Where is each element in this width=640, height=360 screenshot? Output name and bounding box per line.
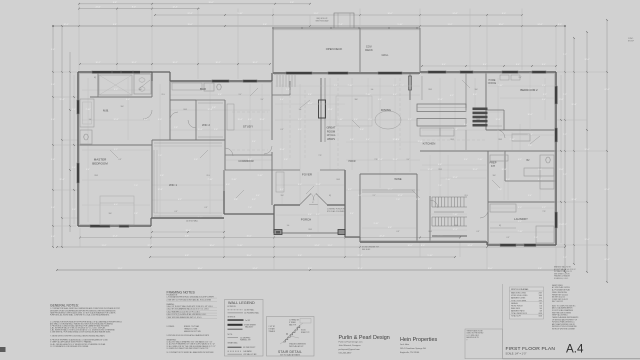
extension lines bottom bbox=[79, 228, 81, 247]
svg-text:22'-4": 22'-4" bbox=[187, 13, 192, 15]
svg-text:BID SET 04.02.22: BID SET 04.02.22 bbox=[552, 297, 565, 299]
svg-text:7'-2": 7'-2" bbox=[563, 257, 567, 259]
great room - kitchen wall bbox=[409, 73, 411, 100]
svg-text:9'-0": 9'-0" bbox=[72, 209, 76, 211]
wall wine room west bbox=[359, 174, 361, 242]
open deck outline bbox=[273, 27, 420, 29]
svg-text:2x4 INT: 2x4 INT bbox=[245, 320, 250, 322]
kitchen island 2 bbox=[417, 119, 466, 127]
windows bottom right bbox=[500, 244, 516, 247]
svg-text:7'-0": 7'-0" bbox=[134, 185, 138, 187]
svg-text:18'-0": 18'-0" bbox=[407, 245, 412, 247]
svg-text:12'-8": 12'-8" bbox=[327, 109, 332, 111]
svg-text:REV 1 06.11.22: REV 1 06.11.22 bbox=[552, 301, 563, 303]
stair west wall bbox=[429, 196, 431, 242]
deck divider wall bbox=[359, 28, 361, 73]
svg-text:2x6: 2x6 bbox=[371, 89, 374, 91]
svg-text:5'-10": 5'-10" bbox=[427, 255, 432, 257]
svg-text:9'-6": 9'-6" bbox=[214, 129, 218, 131]
wic1 shelving bbox=[154, 142, 222, 144]
svg-text:1046: 1046 bbox=[539, 295, 543, 297]
front door double swing bbox=[300, 194, 311, 205]
prep kitchen counters bbox=[490, 155, 508, 161]
svg-text:22'-4": 22'-4" bbox=[147, 245, 152, 247]
wall master closet bbox=[97, 72, 99, 97]
svg-text:LOT / SITE ONLY,: LOT / SITE ONLY, bbox=[467, 335, 480, 337]
svg-text:1414 Cheatham Springs Rd: 1414 Cheatham Springs Rd bbox=[400, 347, 426, 350]
svg-text:62'-6": 62'-6" bbox=[604, 89, 609, 91]
svg-text:3'-0": 3'-0" bbox=[239, 94, 242, 96]
svg-text:9'-6": 9'-6" bbox=[212, 107, 216, 109]
svg-text:WITHOUT WRITTEN CONSENT: WITHOUT WRITTEN CONSENT bbox=[552, 328, 575, 330]
svg-text:Purlin & Pearl Design: Purlin & Pearl Design bbox=[339, 335, 390, 341]
porch column left bbox=[274, 230, 282, 235]
svg-text:22'-4": 22'-4" bbox=[357, 255, 362, 257]
svg-text:CORRIDOR: CORRIDOR bbox=[238, 159, 253, 163]
svg-text:STONE VENEER: STONE VENEER bbox=[244, 324, 257, 326]
svg-text:18'-0": 18'-0" bbox=[498, 24, 503, 26]
svg-text:WDWS: WDWS bbox=[327, 138, 335, 141]
dining table bbox=[375, 111, 401, 129]
dimension ticks right bbox=[564, 25, 566, 27]
svg-text:USED ON THE NOTED: USED ON THE NOTED bbox=[467, 333, 485, 335]
svg-text:COV.: COV. bbox=[366, 45, 373, 49]
stair treads lower flight bbox=[431, 217, 433, 226]
master shower bbox=[99, 75, 132, 95]
svg-text:TYP: TYP bbox=[319, 155, 322, 157]
porch east wall bbox=[344, 170, 346, 237]
svg-text:9'-6": 9'-6" bbox=[51, 49, 55, 51]
svg-text:9'-2": 9'-2" bbox=[280, 189, 284, 191]
svg-text:9'-6": 9'-6" bbox=[538, 268, 542, 270]
svg-text:7'-2": 7'-2" bbox=[563, 174, 567, 176]
svg-text:9'-2": 9'-2" bbox=[408, 119, 412, 121]
svg-text:7'-0": 7'-0" bbox=[396, 199, 400, 201]
svg-text:Eagleville, TN 37060: Eagleville, TN 37060 bbox=[400, 352, 420, 354]
svg-text:purlinpearl@gmail.com: purlinpearl@gmail.com bbox=[339, 348, 361, 351]
svg-text:15'-6": 15'-6" bbox=[279, 149, 284, 151]
svg-text:4'-6": 4'-6" bbox=[388, 227, 392, 229]
exterior wall west of porch bbox=[224, 213, 274, 215]
wall legend entry 7 bbox=[228, 350, 242, 352]
svg-text:9'-6": 9'-6" bbox=[51, 207, 55, 209]
svg-text:12'-4": 12'-4" bbox=[63, 24, 68, 26]
wine counter bbox=[362, 189, 415, 191]
exterior wall bottom laundry bbox=[487, 244, 556, 246]
left dimension line 3 bbox=[69, 52, 71, 232]
windows left wall bbox=[77, 100, 80, 114]
svg-text:7'-10": 7'-10" bbox=[452, 214, 457, 216]
svg-text:7'-10": 7'-10" bbox=[509, 139, 514, 141]
svg-text:WALL LEGEND: WALL LEGEND bbox=[228, 301, 255, 305]
svg-text:STAIR DETAIL: STAIR DETAIL bbox=[278, 350, 302, 354]
title block divider vertical bbox=[502, 284, 504, 359]
svg-text:WRITTEN DIMS GOVERN: WRITTEN DIMS GOVERN bbox=[552, 312, 572, 314]
svg-text:5'-10": 5'-10" bbox=[237, 13, 242, 15]
wall legend entry 8 bbox=[228, 353, 243, 355]
svg-text:15'-0": 15'-0" bbox=[246, 255, 251, 257]
porch west wall bbox=[273, 205, 275, 233]
stair detail top right box bbox=[300, 319, 311, 324]
wall wic2 south bbox=[152, 139, 225, 141]
svg-text:2'-8": 2'-8" bbox=[174, 127, 178, 129]
svg-text:12'-8": 12'-8" bbox=[157, 189, 162, 191]
svg-text:8'-0": 8'-0" bbox=[502, 13, 506, 15]
svg-text:24'-6": 24'-6" bbox=[314, 245, 319, 247]
svg-text:5'-10": 5'-10" bbox=[397, 24, 402, 26]
svg-text:9'-6": 9'-6" bbox=[286, 89, 290, 91]
wall legend note line bbox=[228, 337, 239, 339]
svg-text:INTERIOR:: INTERIOR: bbox=[228, 316, 237, 318]
svg-text:SCHEDULE, U.N.O.: SCHEDULE, U.N.O. bbox=[554, 278, 569, 280]
svg-text:4'-2": 4'-2" bbox=[348, 189, 352, 191]
bath2 south wall bbox=[505, 180, 556, 182]
bedroom2 closet rod bbox=[488, 125, 502, 127]
master water closet bbox=[80, 130, 92, 144]
svg-text:15'-6": 15'-6" bbox=[472, 169, 477, 171]
svg-text:62'-6": 62'-6" bbox=[604, 259, 609, 261]
svg-text:HOME: HOME bbox=[489, 80, 496, 82]
svg-text:5'-10": 5'-10" bbox=[237, 245, 242, 247]
left dimension line 2 bbox=[61, 26, 63, 247]
svg-text:7'-2": 7'-2" bbox=[563, 224, 567, 226]
svg-text:615-405-0857: 615-405-0857 bbox=[339, 353, 353, 355]
svg-text:4'-2": 4'-2" bbox=[178, 199, 182, 201]
wall kitchen-hall south bbox=[420, 150, 556, 152]
svg-text:SCALE: 1/4" = 1'-0": SCALE: 1/4" = 1'-0" bbox=[506, 353, 527, 356]
svg-text:15'-6": 15'-6" bbox=[237, 119, 242, 121]
svg-text:10'-2": 10'-2" bbox=[172, 62, 177, 64]
wall corridor south bbox=[225, 169, 272, 171]
svg-text:4'-2": 4'-2" bbox=[518, 159, 522, 161]
svg-text:7'-0": 7'-0" bbox=[534, 237, 538, 239]
study built-ins bbox=[227, 104, 234, 130]
svg-text:9'-2": 9'-2" bbox=[252, 199, 256, 201]
exterior wall master bottom bbox=[78, 225, 151, 227]
svg-text:309: 309 bbox=[539, 310, 542, 312]
svg-text:18'-0": 18'-0" bbox=[387, 13, 392, 15]
svg-text:2587: 2587 bbox=[539, 293, 543, 295]
svg-text:11'-2": 11'-2" bbox=[102, 245, 107, 247]
title block bottom rule bbox=[503, 358, 640, 360]
svg-text:6'-0": 6'-0" bbox=[473, 94, 477, 96]
svg-text:2868: 2868 bbox=[428, 89, 432, 91]
svg-text:A.4: A.4 bbox=[566, 343, 584, 356]
svg-text:12'-8": 12'-8" bbox=[397, 195, 402, 197]
svg-text:SEE ELEV.: SEE ELEV. bbox=[362, 249, 371, 251]
svg-text:5'-4": 5'-4" bbox=[350, 213, 354, 215]
svg-text:10'-0": 10'-0" bbox=[307, 103, 312, 105]
exterior wall wic1 bottom bbox=[151, 217, 224, 219]
svg-text:62'-6": 62'-6" bbox=[604, 189, 609, 191]
svg-text:5'-4": 5'-4" bbox=[528, 195, 532, 197]
svg-text:22'-4": 22'-4" bbox=[379, 236, 384, 238]
wall bedroom2 south bbox=[486, 129, 556, 131]
svg-text:24'-6": 24'-6" bbox=[537, 24, 542, 26]
extension lines top bbox=[78, 4, 80, 70]
svg-text:Purlin & Pearl Design LLC: Purlin & Pearl Design LLC bbox=[339, 340, 364, 343]
svg-text:OFFICE: OFFICE bbox=[488, 83, 497, 85]
svg-text:4'-2": 4'-2" bbox=[450, 95, 454, 97]
svg-text:4'-6": 4'-6" bbox=[126, 99, 130, 101]
svg-text:31'-4": 31'-4" bbox=[59, 179, 64, 181]
svg-text:TYP: TYP bbox=[543, 211, 546, 213]
dimension ticks top bbox=[78, 8, 80, 10]
svg-text:2868: 2868 bbox=[94, 175, 98, 177]
svg-text:3'-10": 3'-10" bbox=[257, 175, 262, 177]
svg-text:3068: 3068 bbox=[183, 109, 187, 111]
svg-text:7'-0": 7'-0" bbox=[158, 155, 162, 157]
svg-text:9'-6": 9'-6" bbox=[298, 255, 302, 257]
svg-text:BEDROOM 2: BEDROOM 2 bbox=[520, 88, 538, 92]
kitchen counter along wall bbox=[421, 76, 423, 100]
svg-text:CONST. SET 05.20.22: CONST. SET 05.20.22 bbox=[552, 299, 568, 301]
svg-text:FIRST FLOOR AREAS: FIRST FLOOR AREAS bbox=[511, 288, 529, 291]
svg-text:20'-8": 20'-8" bbox=[571, 104, 576, 106]
svg-text:3'-4": 3'-4" bbox=[308, 94, 312, 96]
svg-text:5'-4": 5'-4" bbox=[252, 141, 256, 143]
svg-text:12'-8": 12'-8" bbox=[452, 129, 457, 131]
wall wic2 north bbox=[170, 99, 196, 101]
right dimension line 4 bbox=[606, 20, 608, 282]
svg-text:8'-0": 8'-0" bbox=[132, 7, 136, 9]
svg-text:7'-10": 7'-10" bbox=[497, 85, 502, 87]
svg-text:11'-2": 11'-2" bbox=[448, 24, 453, 26]
svg-text:9'-6": 9'-6" bbox=[51, 119, 55, 121]
svg-text:15'-6": 15'-6" bbox=[197, 129, 202, 131]
svg-text:M.B.: M.B. bbox=[103, 109, 109, 113]
exterior wall right side bbox=[555, 72, 557, 245]
svg-text:8" RISER: 8" RISER bbox=[289, 322, 297, 324]
svg-text:STUDY: STUDY bbox=[243, 125, 253, 129]
svg-text:11'-6": 11'-6" bbox=[559, 224, 564, 226]
exterior wall wine jog bbox=[359, 237, 361, 242]
svg-text:7'-10": 7'-10" bbox=[207, 179, 212, 181]
svg-text:Julie Warwick, Designer: Julie Warwick, Designer bbox=[339, 344, 361, 347]
study ceiling dashes bbox=[232, 111, 268, 113]
wall wine room north bbox=[360, 173, 417, 175]
svg-text:9'-2": 9'-2" bbox=[358, 195, 362, 197]
exterior wall behind deck bbox=[273, 72, 420, 74]
svg-text:6'-8": 6'-8" bbox=[119, 159, 122, 161]
svg-text:TYP: TYP bbox=[375, 159, 378, 161]
svg-text:STN CLAD COLUMNS: STN CLAD COLUMNS bbox=[327, 210, 345, 213]
svg-text:2'-8": 2'-8" bbox=[416, 199, 420, 201]
chimney bump-out bbox=[334, 13, 354, 28]
svg-text:6'-8": 6'-8" bbox=[281, 129, 284, 131]
misc leader lines bbox=[140, 80, 150, 88]
svg-text:3'-4": 3'-4" bbox=[464, 124, 468, 126]
svg-text:6'-8": 6'-8" bbox=[507, 237, 510, 239]
foyer south wall / porch top bbox=[274, 204, 300, 206]
wall master bath north bbox=[90, 96, 152, 98]
svg-text:2 1/2" BY: 2 1/2" BY bbox=[269, 326, 277, 328]
svg-text:22'-4": 22'-4" bbox=[337, 24, 342, 26]
svg-text:12'-8": 12'-8" bbox=[392, 139, 397, 141]
svg-text:7'-2": 7'-2" bbox=[563, 94, 567, 96]
svg-text:10'-2": 10'-2" bbox=[252, 62, 257, 64]
wall bar west bbox=[169, 81, 171, 140]
svg-text:6'-0": 6'-0" bbox=[248, 119, 252, 121]
wic2 shelving bbox=[198, 102, 223, 104]
porch column right bbox=[338, 230, 345, 235]
svg-text:RISER TYP.: RISER TYP. bbox=[301, 332, 310, 334]
svg-text:9'-6": 9'-6" bbox=[194, 159, 198, 161]
svg-text:SW PER STRUCT: SW PER STRUCT bbox=[243, 347, 256, 349]
svg-text:24'-6": 24'-6" bbox=[95, 7, 100, 9]
svg-text:6'-0": 6'-0" bbox=[518, 207, 522, 209]
svg-text:33'-0": 33'-0" bbox=[584, 59, 589, 61]
door arcs interior bbox=[143, 110, 152, 119]
kitchen range bbox=[440, 128, 454, 136]
svg-text:24'-6": 24'-6" bbox=[467, 245, 472, 247]
kitchen island 1 bbox=[417, 104, 466, 112]
svg-text:3'-0": 3'-0" bbox=[407, 159, 410, 161]
exterior wall master bottom step bbox=[150, 218, 152, 226]
pantry shelving dark grid bbox=[473, 108, 488, 111]
svg-text:8'-4": 8'-4" bbox=[442, 64, 446, 66]
top dimension line chain 3 bbox=[155, 14, 522, 16]
exterior wall inner face lines bbox=[79, 73, 150, 75]
svg-text:2'-8": 2'-8" bbox=[134, 213, 138, 215]
svg-text:9'-6": 9'-6" bbox=[284, 159, 288, 161]
svg-text:GREAT: GREAT bbox=[326, 126, 335, 130]
svg-text:7'-10": 7'-10" bbox=[85, 109, 90, 111]
bar counter bbox=[172, 83, 202, 90]
svg-text:6'-8": 6'-8" bbox=[113, 2, 117, 4]
svg-text:1164: 1164 bbox=[539, 298, 542, 300]
windows top wall bar-study bbox=[212, 80, 229, 83]
svg-text:6'-8": 6'-8" bbox=[428, 268, 432, 270]
svg-text:FRONT PORCH: FRONT PORCH bbox=[511, 305, 523, 307]
deck edge posts bbox=[272, 27, 274, 29]
wall wic2 west bbox=[195, 100, 197, 140]
svg-text:9'-0": 9'-0" bbox=[72, 167, 76, 169]
svg-text:8'-0": 8'-0" bbox=[558, 24, 562, 26]
svg-text:4'-6": 4'-6" bbox=[350, 139, 354, 141]
svg-text:5'-4": 5'-4" bbox=[256, 195, 260, 197]
svg-text:18'-0": 18'-0" bbox=[197, 268, 202, 270]
svg-text:7'-10": 7'-10" bbox=[337, 119, 342, 121]
svg-text:7'-10": 7'-10" bbox=[445, 179, 450, 181]
svg-text:4'-6": 4'-6" bbox=[438, 164, 442, 166]
svg-text:24'-6": 24'-6" bbox=[252, 268, 257, 270]
wall legend box bbox=[225, 300, 264, 357]
svg-text:EXTERIOR:: EXTERIOR: bbox=[228, 306, 237, 308]
svg-text:11'-2": 11'-2" bbox=[328, 245, 333, 247]
svg-text:15'-0": 15'-0" bbox=[487, 268, 492, 270]
svg-text:3'-4": 3'-4" bbox=[366, 139, 370, 141]
wall laundry north bbox=[488, 201, 556, 203]
exterior wall top master suite bbox=[78, 71, 152, 73]
top dimension line chain 1 bbox=[79, 3, 310, 5]
leader tick marks along walls bbox=[91, 71, 93, 74]
wall legend entry 5 bar bbox=[228, 329, 243, 330]
svg-text:12'-8": 12'-8" bbox=[427, 169, 432, 171]
svg-text:6'-0": 6'-0" bbox=[114, 89, 118, 91]
svg-text:REPRODUCTION IS PROHIBITED: REPRODUCTION IS PROHIBITED bbox=[552, 326, 578, 328]
svg-text:7'-0": 7'-0" bbox=[438, 185, 442, 187]
stair detail dot bbox=[286, 333, 287, 334]
svg-text:5'-4": 5'-4" bbox=[464, 159, 468, 161]
svg-text:KIT: KIT bbox=[491, 164, 495, 168]
svg-text:GENERAL NOTES:: GENERAL NOTES: bbox=[50, 303, 79, 307]
svg-text:4'-6": 4'-6" bbox=[298, 129, 302, 131]
additional interior chains bbox=[281, 84, 283, 204]
svg-text:4'-6": 4'-6" bbox=[393, 94, 397, 96]
svg-text:8'-4": 8'-4" bbox=[483, 64, 487, 66]
svg-text:10'-0": 10'-0" bbox=[527, 114, 532, 116]
svg-text:2x6: 2x6 bbox=[287, 225, 290, 227]
svg-text:9'-2": 9'-2" bbox=[114, 149, 118, 151]
svg-text:10'-2": 10'-2" bbox=[95, 62, 100, 64]
svg-text:19' CLG: 19' CLG bbox=[327, 134, 336, 137]
svg-text:11'-6": 11'-6" bbox=[559, 169, 564, 171]
svg-text:12'-8": 12'-8" bbox=[452, 177, 457, 179]
svg-text:2868: 2868 bbox=[308, 229, 312, 231]
svg-text:7'-2": 7'-2" bbox=[563, 54, 567, 56]
svg-text:8'-0": 8'-0" bbox=[421, 245, 425, 247]
svg-text:ROOM: ROOM bbox=[327, 129, 336, 133]
wall legend entry 1 bbox=[228, 309, 244, 311]
master bed bbox=[100, 196, 134, 225]
svg-text:6'-8": 6'-8" bbox=[397, 231, 400, 233]
svg-text:BUILT TO COMPLY W/ 2018 IRC: BUILT TO COMPLY W/ 2018 IRC bbox=[552, 305, 576, 307]
svg-text:7'-0": 7'-0" bbox=[248, 207, 252, 209]
svg-text:12'-8": 12'-8" bbox=[437, 99, 442, 101]
svg-text:GRILL: GRILL bbox=[382, 54, 390, 57]
svg-text:544: 544 bbox=[539, 308, 542, 310]
svg-text:12'-8": 12'-8" bbox=[113, 119, 118, 121]
great room fireplace wall bbox=[320, 78, 322, 142]
svg-text:4'-6": 4'-6" bbox=[378, 99, 382, 101]
svg-text:6'-8": 6'-8" bbox=[175, 211, 178, 213]
area table subtotal rule bbox=[510, 300, 544, 302]
svg-text:24'-6": 24'-6" bbox=[452, 13, 457, 15]
svg-text:7'-10": 7'-10" bbox=[365, 94, 370, 96]
svg-text:4'-2": 4'-2" bbox=[144, 119, 148, 121]
svg-text:LAUNDRY: LAUNDRY bbox=[514, 217, 528, 221]
svg-text:FIRST FLOOR PLAN: FIRST FLOOR PLAN bbox=[506, 346, 556, 352]
svg-text:12'-8": 12'-8" bbox=[377, 159, 382, 161]
svg-text:PERMIT SET 03.14.22: PERMIT SET 03.14.22 bbox=[552, 294, 568, 296]
svg-text:3'-4": 3'-4" bbox=[280, 99, 284, 101]
bar bath fixtures bbox=[204, 83, 214, 91]
hall nook wall bbox=[465, 72, 467, 108]
svg-text:31'-4": 31'-4" bbox=[59, 99, 64, 101]
svg-text:2868: 2868 bbox=[498, 139, 502, 141]
svg-text:6'-8": 6'-8" bbox=[185, 255, 189, 257]
svg-text:6'-8": 6'-8" bbox=[113, 24, 117, 26]
svg-text:12'-8": 12'-8" bbox=[207, 109, 212, 111]
exterior wall top bar-study block bbox=[170, 80, 272, 82]
svg-text:9'-2": 9'-2" bbox=[393, 85, 397, 87]
bedroom2 closet shelves bbox=[500, 75, 509, 80]
svg-text:STOOP: STOOP bbox=[628, 41, 635, 43]
svg-text:10'-2": 10'-2" bbox=[131, 62, 136, 64]
svg-text:9'-6": 9'-6" bbox=[360, 129, 364, 131]
stair run arrow bbox=[434, 211, 464, 213]
right dimension line 3 bbox=[586, 32, 588, 272]
svg-text:6'-0": 6'-0" bbox=[114, 204, 118, 206]
svg-text:7'-10": 7'-10" bbox=[477, 159, 482, 161]
stair detail box bbox=[267, 317, 315, 357]
svg-text:NOTE:: NOTE: bbox=[228, 334, 233, 336]
deck stair marks bbox=[276, 75, 278, 87]
svg-text:7'-0": 7'-0" bbox=[498, 189, 502, 191]
svg-text:OPEN DECK: OPEN DECK bbox=[326, 47, 343, 51]
secondary dim inside left wall bbox=[73, 75, 75, 224]
